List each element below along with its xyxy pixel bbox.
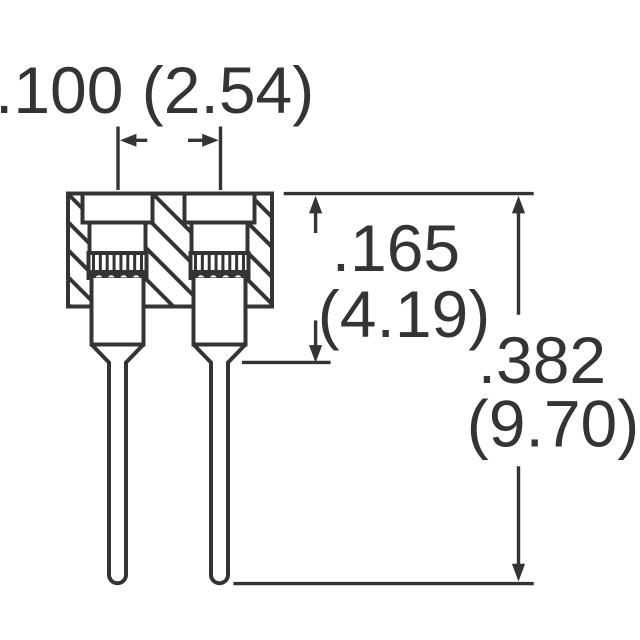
hatch middle column <box>145 194 194 307</box>
socket 1 entry cavity <box>81 194 155 223</box>
svg-text:.100 (2.54): .100 (2.54) <box>0 53 314 127</box>
extension line right pin center <box>219 127 222 191</box>
socket 2 barrel below knurl <box>192 278 248 345</box>
dim .382 lower line and bottom arrow (points down) <box>512 466 525 581</box>
socket 1 contact body <box>90 223 146 254</box>
arrow left (points left) <box>120 134 147 147</box>
socket 2 entry cavity <box>183 194 257 223</box>
extension line at pin shoulder <box>242 361 331 364</box>
extension line bottom (pin tip) <box>233 582 533 585</box>
svg-text:(9.70): (9.70) <box>467 387 639 461</box>
svg-text:(4.19): (4.19) <box>318 277 490 351</box>
svg-text:.165: .165 <box>332 211 460 285</box>
socket 1 knurl band <box>89 253 147 279</box>
extension line top right (housing top) <box>284 192 534 195</box>
dim .382 top arrow and upper line <box>512 196 525 315</box>
arrow right (points right) <box>188 134 219 147</box>
socket 2 taper and pin <box>194 345 246 584</box>
hatch left column <box>68 194 92 307</box>
extension line left pin center <box>116 127 119 191</box>
hatch right column <box>246 200 273 305</box>
dim .165 top arrow (points up) <box>309 196 322 233</box>
socket 1 barrel below knurl <box>90 278 146 345</box>
dim .165 bottom arrow (points down) <box>309 320 322 362</box>
socket 1 taper and pin <box>92 345 144 584</box>
socket 2 knurl band <box>191 253 249 279</box>
housing outline <box>68 194 272 307</box>
socket 2 contact body <box>192 223 248 254</box>
